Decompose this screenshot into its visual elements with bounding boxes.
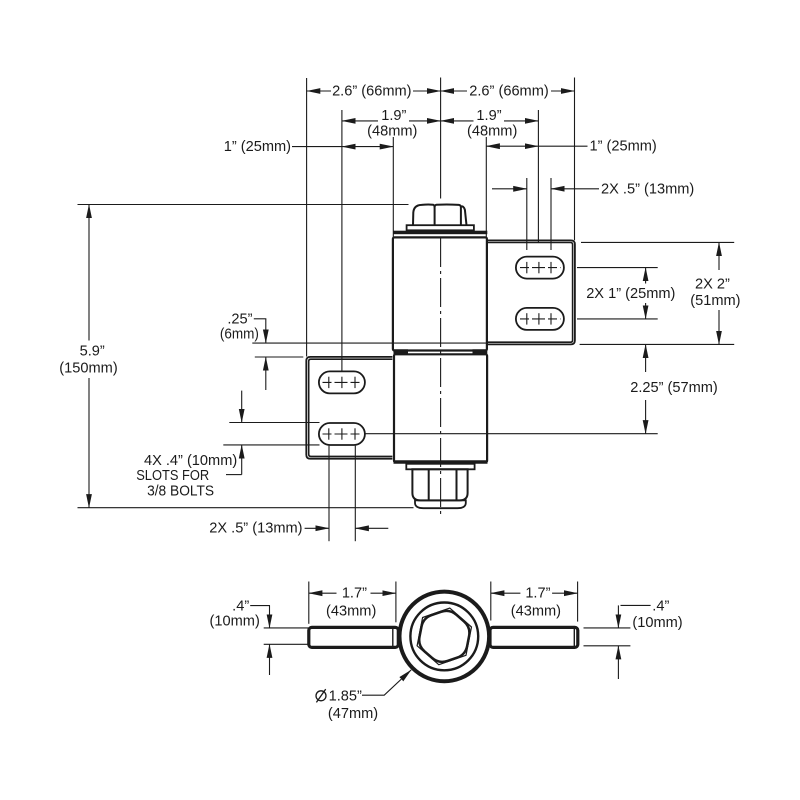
lower barrel [394, 354, 487, 462]
bottom view left leaf [309, 627, 399, 647]
svg-text:1.85”: 1.85” [329, 689, 362, 705]
svg-text:(48mm): (48mm) [467, 123, 517, 139]
dimension 1in left [292, 146, 393, 148]
dimension 2.6in left [307, 90, 441, 92]
svg-text:(48mm): (48mm) [367, 123, 417, 139]
extension lines right plate slot centers [365, 242, 734, 433]
extension line: barrel left edge [392, 137, 394, 237]
svg-text:1” (25mm): 1” (25mm) [224, 139, 291, 155]
svg-text:SLOTS FOR: SLOTS FOR [136, 468, 209, 484]
svg-text:3/8 BOLTS: 3/8 BOLTS [147, 483, 214, 499]
svg-text:(150mm): (150mm) [59, 360, 117, 376]
svg-text:2X 1” (25mm): 2X 1” (25mm) [586, 286, 675, 302]
extension line: right slot tick right [550, 178, 552, 250]
dimension 2X .5in bottom [305, 446, 389, 542]
dimension 4X .4in slots leader [223, 391, 319, 475]
dimension 2.25in [645, 344, 647, 433]
diameter symbol [316, 689, 326, 702]
hex bolt head [413, 204, 467, 225]
hex socket thick [419, 611, 469, 662]
extension line: right slot center [537, 110, 539, 242]
bottom view right leaf [490, 627, 578, 647]
svg-text:.4”: .4” [652, 598, 669, 614]
svg-text:2X .5” (13mm): 2X .5” (13mm) [601, 182, 694, 198]
top washer [407, 225, 474, 230]
svg-text:(10mm): (10mm) [210, 614, 260, 630]
dimension 1in right [486, 145, 587, 147]
svg-text:(6mm): (6mm) [220, 326, 259, 342]
bolt end cap [415, 500, 466, 508]
lower barrel bottom thick edge [394, 460, 488, 463]
svg-text:2.25” (57mm): 2.25” (57mm) [630, 380, 718, 396]
right plate slot 1 [516, 257, 564, 279]
hex socket thin [417, 608, 471, 665]
svg-text:4X .4” (10mm): 4X .4” (10mm) [144, 453, 237, 469]
svg-text:2.6” (66mm): 2.6” (66mm) [332, 84, 411, 100]
svg-text:(47mm): (47mm) [328, 706, 378, 722]
extension line: left slot center [341, 110, 343, 371]
dimension 5.9in [78, 205, 414, 508]
left plate outer [306, 357, 392, 459]
svg-text:(43mm): (43mm) [326, 603, 376, 619]
dimension 1.7in left [309, 582, 396, 624]
barrel joint thick ends [394, 349, 409, 355]
svg-text:1.7”: 1.7” [525, 585, 550, 601]
bottom washer [406, 464, 474, 470]
right plate inner [487, 243, 573, 343]
main centerline [440, 78, 442, 518]
dimension .4in left [250, 606, 308, 675]
svg-text:2X 2”: 2X 2” [695, 277, 730, 293]
dimension .4in right [584, 605, 651, 679]
extension line: right slot tick left [526, 178, 528, 250]
bottom view outer circle [400, 592, 490, 682]
left plate slot 2 [319, 423, 365, 445]
svg-text:.25”: .25” [227, 311, 252, 327]
right plate slot 2 [516, 308, 564, 330]
svg-text:(51mm): (51mm) [690, 293, 740, 309]
upper barrel [393, 237, 487, 350]
svg-text:(10mm): (10mm) [632, 615, 682, 631]
svg-text:(43mm): (43mm) [511, 603, 561, 619]
svg-text:1.9”: 1.9” [476, 108, 501, 124]
svg-text:2.6” (66mm): 2.6” (66mm) [469, 84, 548, 100]
diameter leader [362, 670, 411, 695]
extension line: right plate right edge [574, 78, 576, 241]
dimension .25in [252, 319, 487, 390]
top retaining band [393, 231, 487, 235]
extension line: barrel right edge [485, 137, 487, 237]
svg-text:1.9”: 1.9” [381, 108, 406, 124]
left plate slot 1 [319, 371, 365, 393]
dimension 2X .5in top right [492, 188, 599, 190]
dimension 2X 1in [645, 268, 647, 319]
dimension 1.7in right [491, 582, 578, 622]
hex nut [412, 469, 467, 500]
svg-text:5.9”: 5.9” [80, 344, 105, 360]
extension line: left plate left edge [306, 78, 308, 357]
left plate inner [309, 359, 393, 456]
svg-text:2X .5” (13mm): 2X .5” (13mm) [209, 520, 302, 536]
right plate outer [487, 240, 575, 344]
dimension 2X 2in [718, 242, 720, 344]
svg-text:.4”: .4” [232, 599, 249, 615]
dimension 1.9in right [441, 120, 539, 122]
dimension 2.6in right [441, 90, 575, 92]
svg-text:1.7”: 1.7” [342, 585, 367, 601]
dimension 1.9in left [342, 120, 441, 122]
bottom view inner circle [410, 603, 478, 671]
svg-text:1” (25mm): 1” (25mm) [590, 139, 657, 155]
